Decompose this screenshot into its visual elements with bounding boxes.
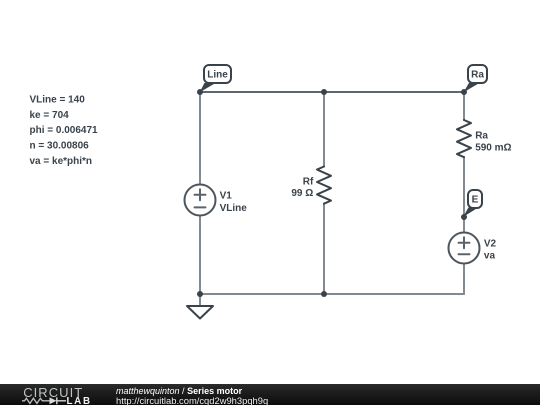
svg-text:VLine = 140: VLine = 140 bbox=[30, 95, 86, 106]
wire middle branch top bbox=[323, 92, 325, 167]
junction dot bottom middle bbox=[321, 291, 327, 297]
voltage source V1 bbox=[185, 185, 216, 216]
svg-text:Ra: Ra bbox=[475, 131, 488, 142]
footer bar bbox=[0, 384, 540, 405]
resistor Ra bbox=[457, 120, 471, 157]
wire V1 to bottom rail bbox=[199, 216, 201, 295]
svg-text:590 mΩ: 590 mΩ bbox=[475, 143, 511, 154]
svg-text:Line: Line bbox=[207, 70, 228, 81]
label Ra name and value bbox=[475, 131, 511, 154]
wire V2 to bottom rail bbox=[463, 264, 465, 295]
label V1 name and value bbox=[220, 191, 248, 214]
wire middle branch bottom bbox=[323, 204, 325, 295]
svg-text:ke = 704: ke = 704 bbox=[30, 110, 70, 121]
node label E bbox=[463, 190, 482, 217]
svg-text:Ra: Ra bbox=[471, 70, 484, 81]
svg-text:V1: V1 bbox=[220, 191, 233, 202]
label V2 name and value bbox=[484, 238, 497, 261]
wire bottom rail bbox=[200, 293, 464, 295]
node label Ra bbox=[464, 65, 487, 92]
svg-text:Rf: Rf bbox=[303, 177, 314, 188]
svg-text:phi = 0.006471: phi = 0.006471 bbox=[30, 125, 99, 136]
svg-text:V2: V2 bbox=[484, 238, 497, 249]
junction dot bottom left bbox=[197, 291, 203, 297]
svg-text:VLine: VLine bbox=[220, 203, 248, 214]
logo diode symbol bbox=[50, 397, 67, 404]
footer credit line bbox=[116, 386, 242, 396]
junction dot node Ra bbox=[461, 89, 467, 95]
svg-text:va: va bbox=[484, 251, 496, 262]
wire right rail top bbox=[463, 92, 465, 120]
node label Line bbox=[200, 65, 231, 92]
CircuitLab logo bbox=[0, 384, 110, 405]
ground triangle bbox=[187, 306, 213, 319]
svg-text:n = 30.00806: n = 30.00806 bbox=[30, 141, 90, 152]
svg-text:99 Ω: 99 Ω bbox=[291, 188, 313, 199]
footer url bbox=[116, 395, 268, 406]
junction dot node E bbox=[461, 214, 467, 220]
resistor Rf bbox=[317, 167, 331, 204]
svg-text:E: E bbox=[472, 195, 479, 206]
annotation parameter text bbox=[30, 95, 99, 167]
svg-text:LAB: LAB bbox=[67, 396, 92, 405]
wire ground stem bbox=[199, 294, 201, 306]
logo resistor symbol bbox=[22, 398, 50, 403]
svg-text:va = ke*phi*n: va = ke*phi*n bbox=[30, 156, 93, 167]
wire Ra to node E bbox=[463, 157, 465, 217]
junction dot node Line bbox=[197, 89, 203, 95]
voltage source V2 bbox=[449, 233, 480, 264]
label Rf name and value bbox=[291, 177, 314, 199]
junction dot top middle bbox=[321, 89, 327, 95]
wire left rail Line to V1 bbox=[199, 92, 201, 185]
wire top rail bbox=[200, 91, 464, 93]
wire node E to V2 bbox=[463, 217, 465, 233]
